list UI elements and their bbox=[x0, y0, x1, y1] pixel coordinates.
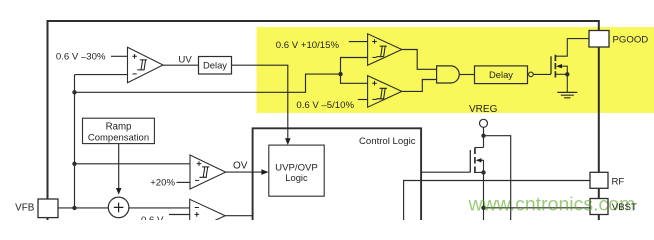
svg-text:+20%: +20% bbox=[150, 177, 175, 188]
svg-text:Logic: Logic bbox=[285, 172, 308, 183]
svg-text:www.cntronics.com: www.cntronics.com bbox=[468, 194, 636, 216]
svg-text:0.6 V: 0.6 V bbox=[141, 215, 164, 220]
svg-text:0.6 V +10/15%: 0.6 V +10/15% bbox=[276, 40, 340, 51]
svg-text:VBST: VBST bbox=[612, 202, 637, 213]
svg-text:0.6 V –30%: 0.6 V –30% bbox=[56, 51, 106, 62]
svg-text:Compensation: Compensation bbox=[88, 133, 149, 144]
svg-text:VFB: VFB bbox=[15, 202, 35, 213]
svg-text:Control Logic: Control Logic bbox=[359, 136, 416, 147]
svg-text:OV: OV bbox=[233, 160, 248, 171]
svg-text:Ramp: Ramp bbox=[106, 122, 132, 133]
svg-text:RF: RF bbox=[612, 176, 625, 187]
svg-text:UV: UV bbox=[178, 55, 192, 66]
svg-text:PGOOD: PGOOD bbox=[613, 35, 649, 46]
svg-text:VREG: VREG bbox=[469, 104, 498, 115]
svg-text:Delay: Delay bbox=[203, 60, 227, 71]
svg-text:0.6 V –5/10%: 0.6 V –5/10% bbox=[296, 100, 354, 111]
svg-text:Delay: Delay bbox=[489, 69, 513, 80]
